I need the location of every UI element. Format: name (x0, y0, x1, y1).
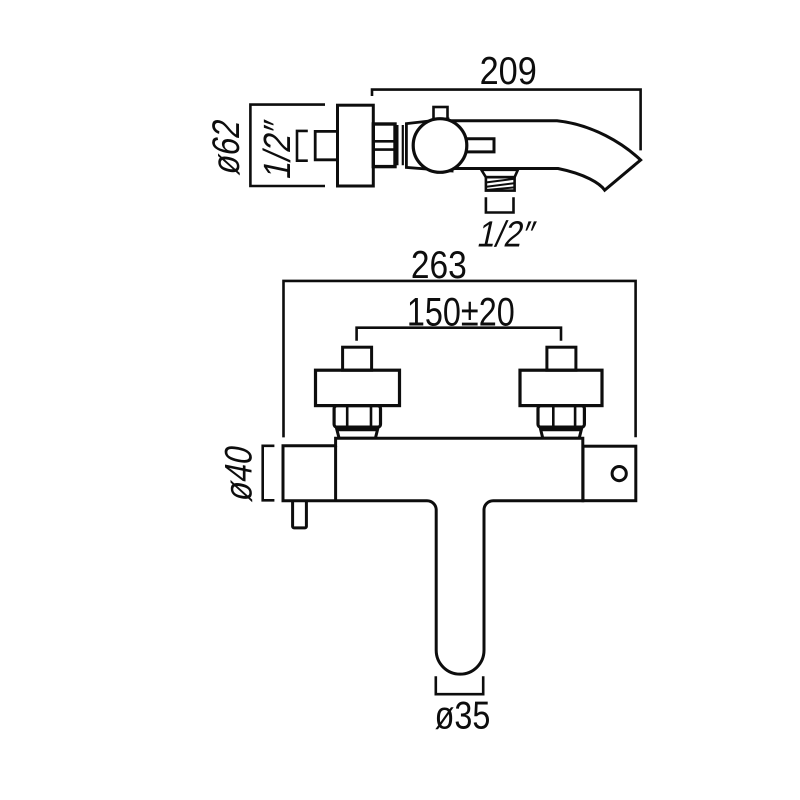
spout (side view) (448, 121, 641, 190)
outlet thread (486, 177, 515, 190)
left inlet nut base (336, 426, 379, 430)
right inlet tailpiece (541, 430, 582, 438)
valve circle (413, 119, 467, 173)
body housing divider (334, 446, 337, 500)
left inlet nut (334, 406, 380, 428)
dimension bracket 1/2 inch outlet (486, 197, 514, 212)
dimension 150±20 (357, 328, 561, 341)
right inlet pipe square (547, 347, 576, 370)
dimension line 209 (372, 90, 641, 151)
wall bracket ear (583, 446, 636, 501)
supply pipe stub (315, 131, 338, 159)
collar (397, 125, 402, 165)
diverter knob (293, 494, 307, 528)
right inlet nut (538, 406, 584, 428)
svg-text:ø35: ø35 (435, 694, 491, 737)
union nut groove lines (373, 141, 395, 149)
right inlet flange (520, 370, 602, 405)
wall plate (338, 105, 374, 186)
left inlet flange (316, 370, 400, 405)
svg-text:ø40: ø40 (217, 441, 260, 504)
valve body cone (406, 119, 452, 171)
svg-text:150±20: 150±20 (407, 289, 515, 334)
dimension bracket ø35 (436, 676, 483, 694)
svg-text:1/2″: 1/2″ (256, 117, 299, 182)
svg-text:1/2″: 1/2″ (474, 214, 539, 255)
screw hole (612, 467, 626, 481)
lever (455, 139, 494, 152)
outlet flange (481, 170, 518, 177)
left inlet nut facets (347, 406, 371, 428)
valve body (front view) (283, 438, 583, 674)
right inlet nut facets (553, 406, 575, 428)
union nut (side view) (373, 124, 395, 167)
outlet thread lines (487, 179, 515, 190)
svg-text:ø62: ø62 (204, 115, 247, 177)
left inlet pipe square (343, 347, 372, 370)
left inlet tailpiece (337, 430, 378, 438)
svg-text:209: 209 (480, 49, 537, 93)
svg-text:263: 263 (411, 243, 467, 287)
dimension bracket ø40 (263, 446, 275, 501)
dimension bracket 1/2 inch wall pipe (297, 131, 308, 161)
dimension 263 (284, 281, 636, 438)
handle tab (434, 107, 448, 119)
right inlet nut base (540, 426, 583, 430)
dimension bracket ø62 (250, 105, 325, 186)
